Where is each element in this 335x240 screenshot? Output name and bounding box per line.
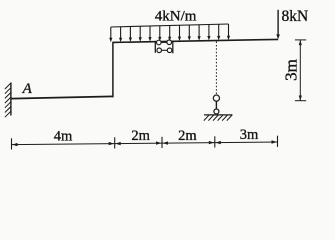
svg-text:2m: 2m	[178, 128, 197, 144]
svg-text:2m: 2m	[131, 128, 150, 144]
svg-text:4m: 4m	[54, 129, 73, 145]
svg-text:A: A	[22, 81, 33, 97]
svg-text:3m: 3m	[282, 59, 301, 81]
svg-text:4kN/m: 4kN/m	[155, 8, 197, 24]
svg-text:3m: 3m	[240, 127, 259, 143]
svg-text:8kN: 8kN	[282, 8, 309, 25]
